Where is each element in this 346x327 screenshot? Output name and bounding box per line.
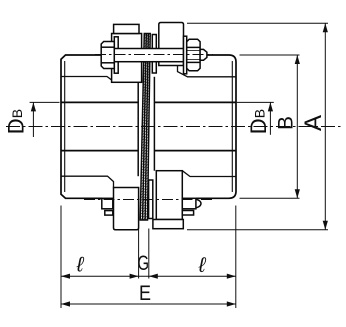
svg-text:B: B xyxy=(275,116,298,130)
svg-text:G: G xyxy=(137,252,149,275)
svg-text:ℓ: ℓ xyxy=(198,254,207,277)
svg-text:A: A xyxy=(300,115,327,131)
svg-text:ℓ: ℓ xyxy=(76,254,85,277)
svg-text:E: E xyxy=(139,281,151,305)
